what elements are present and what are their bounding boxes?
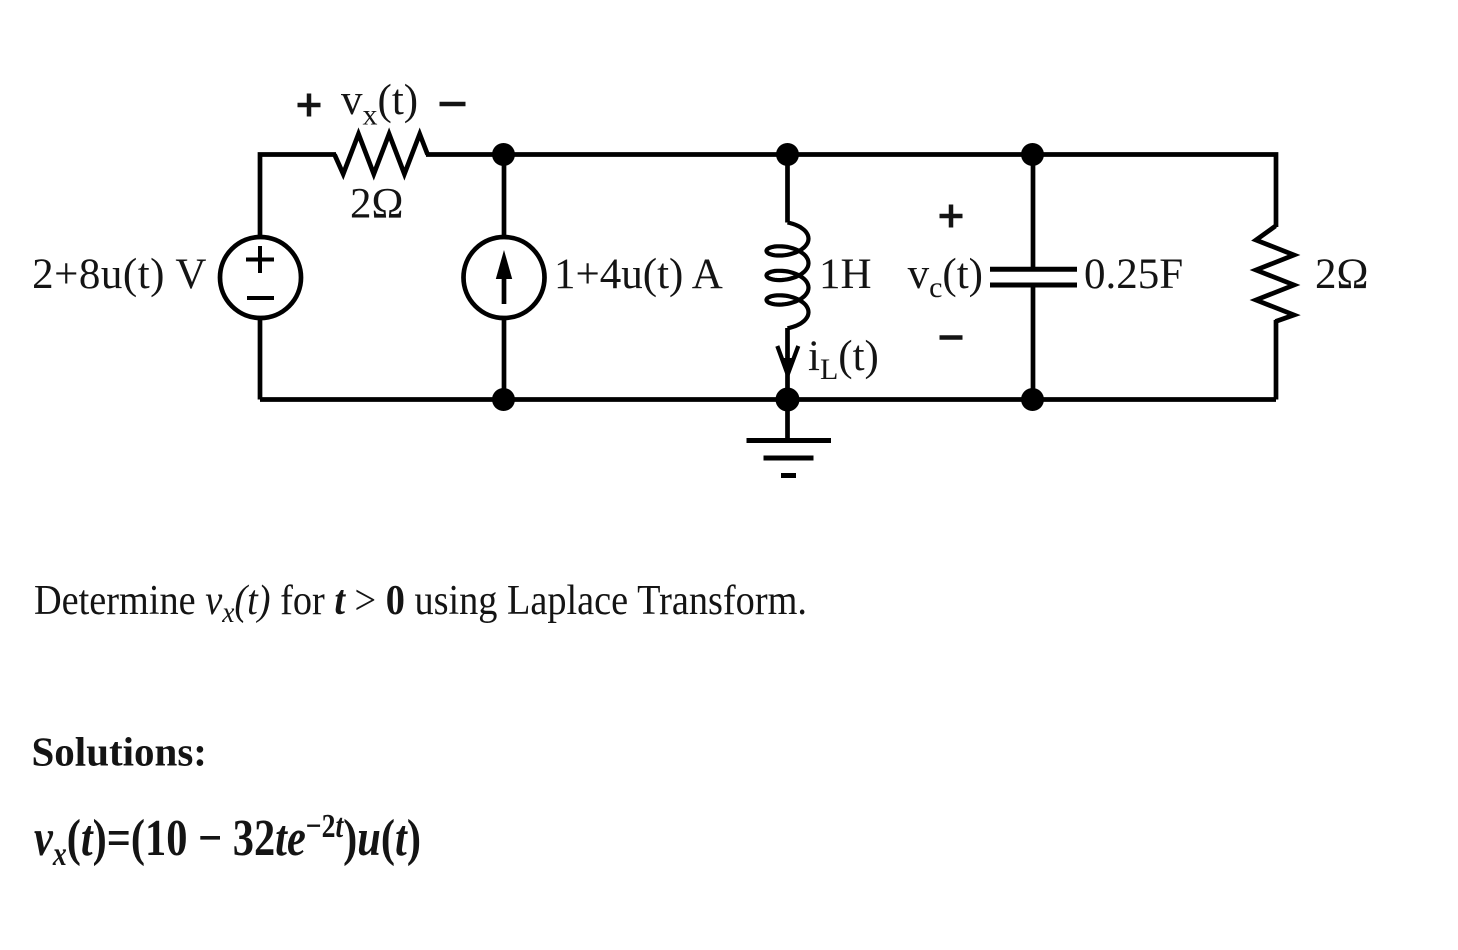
ground bar 3 [781, 473, 796, 478]
node A bottom junction dot [492, 388, 515, 411]
svg-text:iL(t): iL(t) [808, 333, 879, 386]
wire top-left (source to R1) [260, 155, 336, 238]
V1 minus sign [247, 296, 274, 300]
ground bar 1 [747, 438, 832, 443]
wire top (R1 to node A) [426, 152, 504, 157]
wire inductor bottom lead [785, 328, 790, 400]
label plus of vx(t) [298, 94, 321, 117]
wire right bottom (R3 to bottom rail) [1274, 320, 1279, 400]
svg-text:1+4u(t) A: 1+4u(t) A [554, 251, 723, 298]
problem statement text [34, 576, 807, 629]
capacitor C1 bottom plate [990, 283, 1077, 288]
wire top-right (node C to R3) [1033, 155, 1277, 228]
svg-text:Determine vx(t) for t > 0 usin: Determine vx(t) for t > 0 using Laplace … [34, 576, 807, 629]
svg-text:0.25F: 0.25F [1084, 251, 1183, 298]
node C top junction dot [1021, 143, 1044, 166]
current source I1 arrow shaft [502, 268, 507, 304]
svg-text:Solutions:: Solutions: [32, 729, 207, 775]
resistor R3 2ohm zigzag [1256, 226, 1294, 322]
solution formula vx(t)=(10-32te^-2t)u(t) [34, 806, 421, 872]
node B top junction dot [776, 143, 799, 166]
svg-text:2+8u(t) V: 2+8u(t) V [32, 251, 207, 298]
svg-text:vc(t): vc(t) [908, 251, 983, 304]
inductor L1 coil [767, 223, 809, 329]
svg-text:vx(t): vx(t) [341, 77, 418, 132]
label plus of vc(t) [940, 205, 963, 228]
ground bar 2 [764, 456, 814, 461]
current source I1 circle [464, 237, 545, 318]
svg-text:vx(t)=(10 − 32te−2t)u(t): vx(t)=(10 − 32te−2t)u(t) [34, 806, 421, 872]
wire top (node B to node C) [788, 152, 1033, 157]
arrow iL solid tip [781, 358, 796, 377]
ground stub [785, 400, 790, 441]
svg-text:2Ω: 2Ω [350, 181, 403, 228]
node B bottom junction dot (ground node) [776, 388, 800, 412]
label minus of vx(t) [440, 102, 466, 107]
V1 plus sign [246, 246, 274, 273]
wire capacitor bottom lead [1031, 287, 1036, 400]
arrow iL barbs [777, 346, 798, 375]
resistor R1 2ohm zigzag [335, 134, 428, 174]
node C bottom junction dot [1021, 388, 1044, 411]
wire current source bottom lead [502, 318, 507, 400]
wire left bottom (V1 to bottom rail) [258, 318, 263, 400]
label minus of vc(t) [940, 335, 963, 340]
wire top (node A to node B) [504, 152, 788, 157]
svg-text:1H: 1H [819, 251, 872, 298]
svg-text:2Ω: 2Ω [1315, 251, 1368, 298]
voltage source V1 circle [220, 237, 301, 318]
capacitor C1 top plate [990, 267, 1077, 272]
wire current source top lead [502, 155, 507, 238]
wire capacitor top lead [1031, 155, 1036, 268]
current source I1 arrowhead [496, 250, 512, 279]
wire bottom rail [260, 397, 1276, 402]
wire inductor top lead [785, 155, 790, 223]
node A top junction dot [492, 143, 515, 166]
